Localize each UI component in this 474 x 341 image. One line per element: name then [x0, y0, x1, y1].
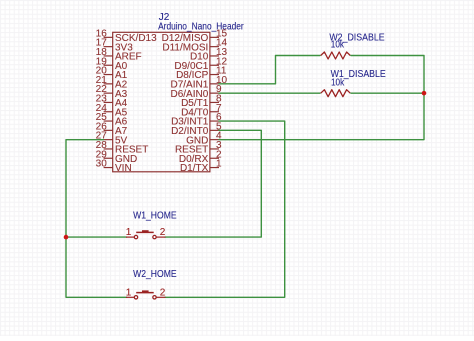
- svg-text:1: 1: [126, 227, 132, 238]
- pin 13 D10: [210, 55, 219, 57]
- switch W2_HOME actuator bar: [136, 292, 154, 294]
- switch W2_HOME pin 1 lead: [126, 296, 134, 298]
- pin 23 A4: [104, 101, 113, 103]
- wire left vertical to W1_HOME left: [66, 236, 127, 238]
- pin 6 D3/INT1: [210, 120, 219, 122]
- svg-text:D1/TX: D1/TX: [180, 163, 209, 174]
- wire pin6 D3/INT1 down to W2_HOME right: [165, 121, 285, 297]
- svg-text:2: 2: [160, 227, 166, 238]
- resistor R W2_DISABLE: [321, 52, 351, 59]
- pin 14 D11/MOSI: [210, 46, 219, 48]
- svg-text:W1_HOME: W1_HOME: [133, 210, 177, 221]
- switch W2_HOME contact 2: [153, 296, 156, 299]
- pin 30 VIN: [104, 167, 113, 169]
- svg-text:Arduino_Nano_Header: Arduino_Nano_Header: [158, 22, 244, 33]
- switch W2_HOME actuator bump: [142, 290, 149, 292]
- pin 5 D2/INT0: [210, 129, 219, 131]
- wire pin5 D2/INT0 down to W1_HOME right: [165, 130, 261, 237]
- switch W1_HOME contact 1: [134, 235, 137, 238]
- pin 20 A1: [104, 74, 113, 76]
- switch W2_HOME contact 1: [134, 296, 137, 299]
- pin 27 5V: [104, 139, 113, 141]
- switch W1_HOME contact 2: [153, 235, 156, 238]
- svg-text:10k: 10k: [331, 40, 345, 51]
- pin 11 D8/ICP: [210, 74, 219, 76]
- pin 8 D5/T1: [210, 101, 219, 103]
- pin 29 GND: [104, 157, 113, 159]
- pin 17 3V3: [104, 46, 113, 48]
- wire pin9 D6/AIN0 to W1_DISABLE resistor: [219, 92, 320, 94]
- svg-text:W2_HOME: W2_HOME: [133, 269, 177, 280]
- pin 26 A7: [104, 129, 113, 131]
- junction at resistor net: [422, 91, 427, 96]
- pin 28 RESET: [104, 148, 113, 150]
- junction at left bus / W1_HOME: [64, 235, 69, 240]
- svg-text:2: 2: [160, 287, 166, 298]
- pin 9 D6/AIN0: [210, 92, 219, 94]
- switch W1_HOME actuator bar: [136, 231, 154, 233]
- pin 19 A0: [104, 64, 113, 66]
- svg-text:1: 1: [216, 159, 222, 170]
- pin 25 A6: [104, 120, 113, 122]
- pin 16 SCK/D13: [104, 36, 113, 38]
- pin 4 GND: [210, 139, 219, 141]
- connector J2 Arduino_Nano_Header body: [113, 32, 210, 172]
- resistor R W1_DISABLE: [321, 90, 351, 97]
- switch W2_HOME pin 2 lead: [156, 296, 165, 298]
- wire W1_DISABLE resistor to junction and down to pin4 GND: [219, 93, 424, 139]
- pin 3 RESET: [210, 148, 219, 150]
- pin 24 A5: [104, 111, 113, 113]
- switch W1_HOME actuator bump: [142, 230, 149, 232]
- pin 7 D4/T0: [210, 111, 219, 113]
- wire 5V to left vertical bus: [66, 140, 127, 298]
- wire pin10 D7/AIN1 to W2_DISABLE resistor: [219, 56, 320, 84]
- pin 2 D0/RX: [210, 157, 219, 159]
- svg-text:VIN: VIN: [115, 163, 132, 174]
- wire W2_DISABLE resistor to right vertical: [351, 56, 424, 94]
- svg-text:1: 1: [126, 287, 132, 298]
- svg-text:10k: 10k: [331, 78, 345, 89]
- pin 21 A2: [104, 83, 113, 85]
- pin 22 A3: [104, 92, 113, 94]
- pin 1 D1/TX: [210, 167, 219, 169]
- pin 12 D9/0C1: [210, 64, 219, 66]
- pin 18 AREF: [104, 55, 113, 57]
- switch W1_HOME pin 1 lead: [126, 236, 134, 238]
- switch W1_HOME pin 2 lead: [156, 236, 165, 238]
- svg-text:30: 30: [96, 159, 108, 170]
- pin 15 D12/MISO: [210, 36, 219, 38]
- pin 10 D7/AIN1: [210, 83, 219, 85]
